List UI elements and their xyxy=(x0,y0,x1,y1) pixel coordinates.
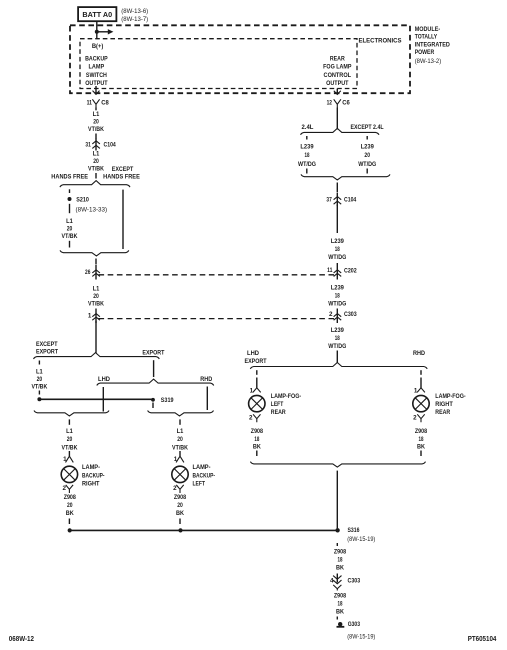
wire except hands free bypass xyxy=(122,190,124,249)
svg-text:BACKUP: BACKUP xyxy=(85,55,108,62)
svg-text:068W-12: 068W-12 xyxy=(9,636,34,643)
svg-text:S316: S316 xyxy=(348,527,360,534)
svg-text:VT/BK: VT/BK xyxy=(62,233,78,240)
svg-text:(8W-15-19): (8W-15-19) xyxy=(347,633,375,640)
svg-text:18: 18 xyxy=(335,246,340,253)
svg-text:20: 20 xyxy=(177,502,183,509)
svg-text:VT/BK: VT/BK xyxy=(172,444,188,451)
connector C104 pin 37 xyxy=(326,193,356,206)
svg-text:2: 2 xyxy=(249,414,253,421)
lamp fog right pin 1 xyxy=(414,387,425,394)
svg-text:18: 18 xyxy=(254,436,259,443)
battery feed box BATT A0 xyxy=(78,7,116,21)
svg-text:INTEGRATED: INTEGRATED xyxy=(415,41,450,48)
svg-text:18: 18 xyxy=(419,436,424,443)
wire rhd xyxy=(206,387,208,411)
arrow feed to right inside module xyxy=(97,29,114,34)
ground G303 xyxy=(337,621,361,628)
svg-text:20: 20 xyxy=(364,152,370,159)
svg-text:RIGHT: RIGHT xyxy=(435,401,453,408)
reference (8W-13-6) (8W-13-7) xyxy=(121,8,148,23)
wire label L239 18 WT/DG xyxy=(328,284,346,307)
lamp backup right pin 1 xyxy=(63,456,73,463)
svg-text:BATT A0: BATT A0 xyxy=(82,12,112,19)
merge brace backup left xyxy=(148,411,214,417)
svg-text:L1: L1 xyxy=(36,368,43,375)
svg-text:TOTALLY: TOTALLY xyxy=(415,34,438,41)
svg-text:Z908: Z908 xyxy=(334,549,347,556)
wire label L1 20 VT/BK xyxy=(62,218,78,240)
lamp backup left pin 1 xyxy=(174,456,184,463)
svg-text:HANDS FREE: HANDS FREE xyxy=(103,174,140,181)
label LAMP-BACKUP-RIGHT xyxy=(82,464,105,487)
lamp backup left pin 2 xyxy=(173,485,184,493)
lamp LAMP-BACKUP-RIGHT xyxy=(61,466,77,482)
svg-text:18: 18 xyxy=(305,152,310,159)
wire xyxy=(95,134,97,139)
wire label L1 20 VT/BK xyxy=(88,111,104,133)
svg-text:LAMP-: LAMP- xyxy=(82,464,100,471)
wire xyxy=(68,419,70,424)
split brace engine xyxy=(301,128,380,134)
wire label L1 20 VT/BK (backup left) xyxy=(172,428,188,451)
svg-text:CONTROL: CONTROL xyxy=(324,72,352,79)
wire label Z908 20 BK (backup left) xyxy=(174,494,187,517)
svg-text:BK: BK xyxy=(66,510,74,517)
wire xyxy=(336,617,338,620)
svg-text:C104: C104 xyxy=(104,142,117,149)
svg-text:2: 2 xyxy=(173,485,177,492)
svg-text:WT/DG: WT/DG xyxy=(328,254,346,261)
svg-text:1: 1 xyxy=(414,387,418,394)
svg-text:Z908: Z908 xyxy=(415,428,428,435)
svg-text:BK: BK xyxy=(336,609,344,616)
connector C104 pin 31 xyxy=(85,138,116,151)
svg-text:VT/BK: VT/BK xyxy=(88,126,104,133)
output arrow rear fog lamp control output xyxy=(334,89,341,95)
svg-text:Z908: Z908 xyxy=(251,428,264,435)
connector C303 pin 4 xyxy=(330,574,360,591)
wire xyxy=(256,378,258,389)
svg-text:2: 2 xyxy=(62,485,66,492)
connector C6 pin 12 xyxy=(327,99,350,107)
wire xyxy=(306,169,308,174)
wire xyxy=(95,259,97,265)
wire label Z908 18 BK xyxy=(334,549,347,572)
svg-text:18: 18 xyxy=(338,557,343,564)
wire label Z908 18 BK xyxy=(334,593,347,616)
label EXCEPT HANDS FREE (right branch) xyxy=(103,166,140,180)
svg-text:REAR: REAR xyxy=(271,409,286,416)
wire label L1 20 VT/BK xyxy=(31,368,47,390)
wire label L1 20 VT/BK xyxy=(88,286,104,308)
label MODULE-TOTALLY INTEGRATED POWER (8W-13-2) xyxy=(415,26,450,65)
svg-text:EXCEPT 2.4L: EXCEPT 2.4L xyxy=(351,124,384,131)
connector C303 pin 1 xyxy=(88,309,100,324)
svg-text:B(+): B(+) xyxy=(92,43,104,50)
svg-text:POWER: POWER xyxy=(415,49,435,56)
wire xyxy=(179,419,181,424)
junction node on B(+) feed xyxy=(95,30,99,34)
svg-text:LHD: LHD xyxy=(247,350,259,357)
junction node backup left ground xyxy=(178,528,182,532)
svg-text:RHD: RHD xyxy=(413,350,425,357)
svg-text:SWITCH: SWITCH xyxy=(86,72,107,79)
wire xyxy=(38,361,40,365)
svg-text:BK: BK xyxy=(417,444,425,451)
svg-text:VT/BK: VT/BK xyxy=(62,444,78,451)
svg-text:20: 20 xyxy=(67,225,73,232)
svg-text:C6: C6 xyxy=(342,99,350,106)
svg-text:BACKUP-: BACKUP- xyxy=(82,472,105,479)
output arrow backup lamp switch output xyxy=(93,86,100,94)
merge brace engine xyxy=(301,174,390,180)
wire xyxy=(179,519,181,525)
merge brace hands free xyxy=(60,250,129,256)
merge brace fog xyxy=(250,462,425,468)
wire xyxy=(95,108,97,111)
wire label L239 18 WT/DG xyxy=(328,327,346,350)
svg-text:LEFT: LEFT xyxy=(271,401,284,408)
svg-text:20: 20 xyxy=(67,436,73,443)
dashed net C303 xyxy=(99,318,335,320)
wire to splice S319 xyxy=(39,398,153,400)
dashed net C202 xyxy=(99,274,335,276)
wire xyxy=(68,451,70,456)
svg-text:18: 18 xyxy=(335,335,340,342)
wire xyxy=(366,169,368,174)
svg-text:1: 1 xyxy=(88,313,92,320)
wire xyxy=(336,543,338,546)
split brace hands free xyxy=(60,181,130,188)
wire xyxy=(69,241,71,248)
svg-text:OUTPUT: OUTPUT xyxy=(326,80,349,87)
wire from BATT A0 into module xyxy=(96,21,98,39)
lamp fog left pin 1 xyxy=(250,387,261,394)
svg-text:L1: L1 xyxy=(93,111,100,118)
svg-text:HANDS FREE: HANDS FREE xyxy=(51,174,88,181)
svg-text:20: 20 xyxy=(93,158,99,165)
junction node except-export xyxy=(37,397,41,401)
svg-text:G303: G303 xyxy=(348,621,361,628)
svg-text:20: 20 xyxy=(93,118,99,125)
svg-text:L1: L1 xyxy=(93,151,100,158)
lamp fog left pin 2 xyxy=(249,414,261,422)
svg-text:BACKUP-: BACKUP- xyxy=(193,472,216,479)
wire label L239 18 WT/DG xyxy=(298,144,316,168)
wire xyxy=(336,351,338,363)
svg-text:RIGHT: RIGHT xyxy=(82,480,100,487)
wire xyxy=(256,370,258,375)
svg-text:EXCEPT: EXCEPT xyxy=(36,341,58,348)
wire xyxy=(256,451,258,457)
label LAMP-FOG-RIGHT REAR xyxy=(435,393,465,416)
svg-text:Z908: Z908 xyxy=(174,494,187,501)
svg-text:LHD: LHD xyxy=(98,376,110,383)
svg-text:31: 31 xyxy=(85,142,91,149)
svg-text:37: 37 xyxy=(326,197,332,204)
label LAMP-FOG-LEFT REAR xyxy=(271,393,301,416)
svg-text:20: 20 xyxy=(93,293,99,300)
svg-text:LAMP: LAMP xyxy=(89,64,105,71)
svg-text:REAR: REAR xyxy=(330,55,345,62)
svg-text:BK: BK xyxy=(336,565,344,572)
svg-text:WT/DG: WT/DG xyxy=(358,161,376,168)
label LAMP-BACKUP-LEFT xyxy=(193,464,216,487)
svg-text:18: 18 xyxy=(335,292,340,299)
svg-text:FOG LAMP: FOG LAMP xyxy=(323,64,351,71)
lamp backup right pin 2 xyxy=(62,485,73,493)
svg-text:Z908: Z908 xyxy=(64,494,77,501)
svg-text:L239: L239 xyxy=(331,327,345,334)
lamp LAMP-BACKUP-LEFT xyxy=(172,466,188,482)
wire label L239 20 WT/DG xyxy=(358,144,376,168)
wire xyxy=(69,189,71,193)
wire xyxy=(336,108,338,130)
svg-text:L239: L239 xyxy=(300,144,314,151)
svg-text:BK: BK xyxy=(253,444,261,451)
svg-text:S210: S210 xyxy=(76,197,89,204)
svg-text:1: 1 xyxy=(250,387,254,394)
svg-text:(8W-13-7): (8W-13-7) xyxy=(121,16,148,23)
wire xyxy=(336,205,338,234)
wire xyxy=(179,451,181,456)
svg-text:EXPORT: EXPORT xyxy=(142,349,164,356)
wire xyxy=(420,378,422,389)
module box: TOTALLY INTEGRATED POWER (outer dashed) xyxy=(70,25,410,93)
split brace export xyxy=(34,353,160,359)
svg-text:LAMP-: LAMP- xyxy=(193,464,211,471)
svg-text:Z908: Z908 xyxy=(334,593,347,600)
svg-text:C202: C202 xyxy=(344,267,357,274)
svg-text:C303: C303 xyxy=(344,311,357,318)
svg-text:EXPORT: EXPORT xyxy=(245,358,267,365)
wire xyxy=(336,471,338,529)
merge brace backup right xyxy=(34,411,109,417)
label REAR FOG LAMP CONTROL OUTPUT xyxy=(323,55,351,87)
svg-text:WT/DG: WT/DG xyxy=(298,161,316,168)
wire xyxy=(420,451,422,457)
wire lhd xyxy=(102,387,104,412)
svg-text:ELECTRONICS: ELECTRONICS xyxy=(359,37,403,44)
lamp LAMP-FOG-RIGHT REAR xyxy=(413,395,429,411)
connector C8 pin 11 xyxy=(87,99,109,107)
svg-text:C104: C104 xyxy=(344,197,357,204)
split brace fog xyxy=(250,363,427,369)
svg-text:WT/DG: WT/DG xyxy=(328,343,346,350)
wire label Z908 18 BK (fog right) xyxy=(415,428,428,451)
wire xyxy=(366,136,368,140)
svg-text:(8W-15-19): (8W-15-19) xyxy=(347,536,375,543)
splice S319 xyxy=(151,397,174,404)
inner dashed box ELECTRONICS xyxy=(80,39,357,89)
svg-text:RHD: RHD xyxy=(200,376,212,383)
svg-text:12: 12 xyxy=(327,99,333,106)
svg-text:L239: L239 xyxy=(361,144,375,151)
svg-text:(8W-13-6): (8W-13-6) xyxy=(121,8,148,15)
svg-text:BK: BK xyxy=(176,510,184,517)
svg-text:20: 20 xyxy=(67,502,73,509)
svg-text:20: 20 xyxy=(177,436,183,443)
wire xyxy=(420,370,422,375)
svg-text:VT/BK: VT/BK xyxy=(88,166,104,173)
svg-text:C303: C303 xyxy=(348,577,361,584)
svg-text:VT/BK: VT/BK xyxy=(88,301,104,308)
wire label Z908 18 BK (fog left) xyxy=(251,428,264,451)
wire xyxy=(69,204,71,213)
lamp LAMP-FOG-LEFT REAR xyxy=(249,395,265,411)
wire label L239 18 WT/DG xyxy=(328,238,346,261)
wire export branch xyxy=(153,360,155,377)
svg-text:20: 20 xyxy=(37,376,43,383)
connector C303 pin 2 xyxy=(329,309,357,324)
splice S210 xyxy=(68,197,90,204)
wire xyxy=(68,519,70,525)
junction node backup right ground xyxy=(68,528,72,532)
wire xyxy=(336,183,338,193)
wire xyxy=(95,173,97,179)
svg-text:EXCEPT: EXCEPT xyxy=(112,166,134,173)
svg-text:REAR: REAR xyxy=(435,409,450,416)
wire xyxy=(306,136,308,140)
svg-text:VT/BK: VT/BK xyxy=(31,383,47,390)
connector C202 pin 26 xyxy=(85,265,100,280)
svg-text:(8W-13-2): (8W-13-2) xyxy=(415,58,442,65)
svg-text:11: 11 xyxy=(327,267,333,274)
svg-text:MODULE-: MODULE- xyxy=(415,26,441,33)
svg-text:2.4L: 2.4L xyxy=(302,124,314,131)
svg-text:L1: L1 xyxy=(93,286,100,293)
wire xyxy=(152,403,154,409)
connector C202 pin 11 xyxy=(327,263,357,280)
svg-text:L1: L1 xyxy=(177,428,184,435)
split brace lhd rhd xyxy=(97,379,214,385)
svg-text:L239: L239 xyxy=(331,238,345,245)
wire label L1 20 VT/BK (backup right) xyxy=(62,428,78,451)
label BACKUP LAMP SWITCH OUTPUT xyxy=(85,55,108,87)
splice S316 xyxy=(335,527,359,534)
svg-text:LEFT: LEFT xyxy=(193,480,206,487)
svg-text:L239: L239 xyxy=(331,284,345,291)
svg-text:LAMP-FOG-: LAMP-FOG- xyxy=(435,393,465,400)
svg-text:WT/DG: WT/DG xyxy=(328,300,346,307)
svg-text:S319: S319 xyxy=(161,397,174,404)
wire label L1 20 VT/BK xyxy=(88,151,104,173)
label LHD EXPORT xyxy=(245,350,267,365)
svg-text:18: 18 xyxy=(338,601,343,608)
svg-text:EXPORT: EXPORT xyxy=(36,349,58,356)
ground bus wire xyxy=(69,529,337,531)
svg-text:L1: L1 xyxy=(66,218,73,225)
label EXCEPT EXPORT xyxy=(36,341,58,356)
svg-text:PT605104: PT605104 xyxy=(468,636,497,643)
wire xyxy=(38,391,40,395)
svg-text:C8: C8 xyxy=(101,99,109,106)
svg-text:L1: L1 xyxy=(66,428,73,435)
svg-text:26: 26 xyxy=(85,269,91,276)
lamp fog right pin 2 xyxy=(413,414,425,422)
svg-text:2: 2 xyxy=(413,414,417,421)
svg-text:(8W-13-33): (8W-13-33) xyxy=(76,207,108,214)
wire xyxy=(95,321,97,353)
wire label Z908 20 BK (backup right) xyxy=(64,494,77,517)
svg-text:2: 2 xyxy=(329,311,333,318)
svg-text:11: 11 xyxy=(87,99,93,106)
svg-text:LAMP-FOG-: LAMP-FOG- xyxy=(271,393,301,400)
